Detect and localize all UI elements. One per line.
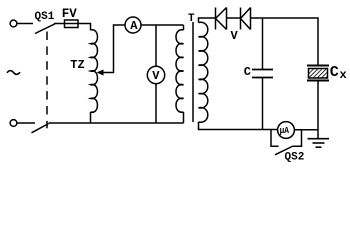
svg-text:TZ: TZ [70, 58, 84, 72]
svg-text:C: C [244, 65, 251, 79]
svg-text:QS2: QS2 [285, 152, 305, 164]
svg-text:C: C [330, 64, 339, 81]
svg-text:A: A [130, 19, 138, 33]
svg-text:FV: FV [62, 7, 78, 21]
svg-text:V: V [152, 69, 160, 83]
svg-text:µA: µA [280, 125, 290, 136]
svg-text:V: V [231, 29, 239, 43]
svg-text:x: x [340, 68, 347, 82]
svg-text:T: T [188, 13, 195, 25]
svg-text:QS1: QS1 [35, 11, 55, 23]
